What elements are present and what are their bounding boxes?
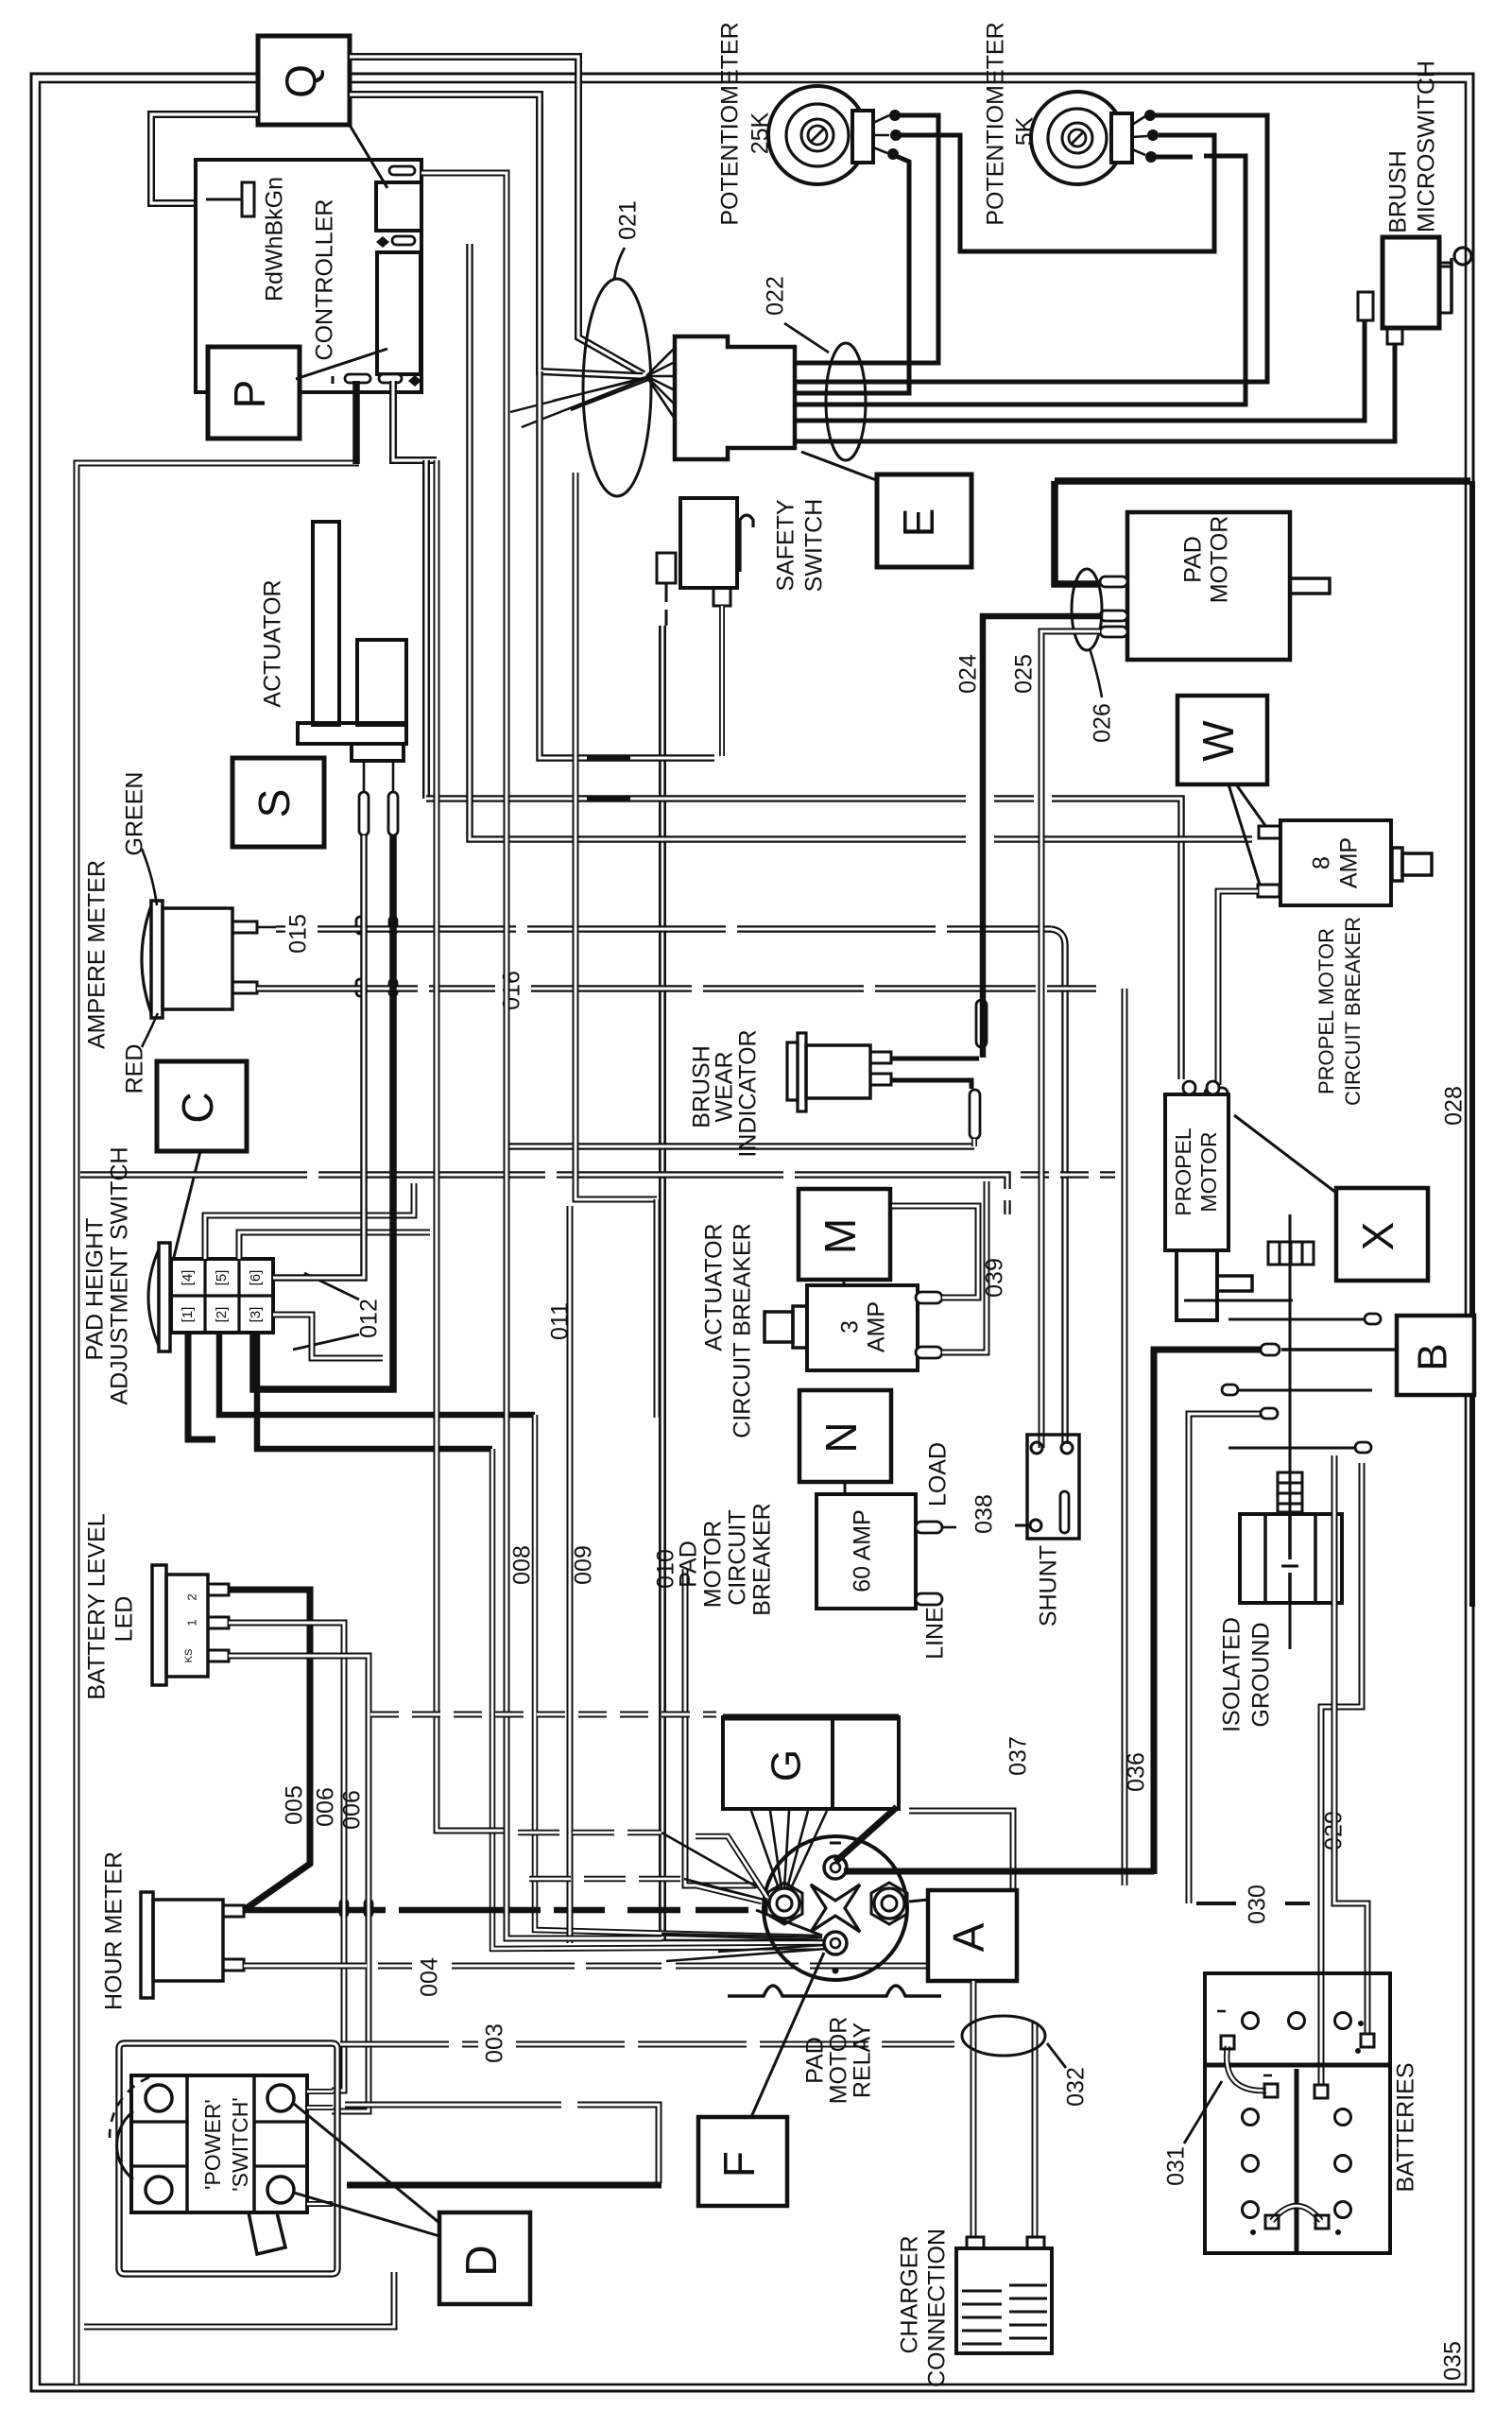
svg-text:C: C: [173, 1092, 222, 1123]
svg-text:MICROSWITCH: MICROSWITCH: [1414, 60, 1440, 232]
battery polarity marks: [1217, 2011, 1334, 2230]
wire dashed bus 1938: [518, 1830, 661, 1836]
svg-text:005: 005: [282, 1785, 308, 1825]
svg-text:PROPEL: PROPEL: [1171, 1128, 1195, 1216]
wire 5K bottom terminal: [797, 156, 1246, 405]
harness ellipse 021: [583, 279, 651, 496]
shunt body: [1027, 1435, 1079, 1539]
wire thick top stud bus: [844, 1868, 1154, 1875]
svg-text:SAFETY: SAFETY: [773, 499, 799, 592]
svg-text:'SWITCH': 'SWITCH': [228, 2097, 252, 2192]
relay left stud: [766, 1883, 802, 1924]
svg-text:POTENTIOMETER: POTENTIOMETER: [983, 22, 1009, 225]
svg-text:D: D: [456, 2245, 506, 2276]
brush wear pin 2: [870, 1074, 891, 1085]
svg-text:ADJUSTMENT SWITCH: ADJUSTMENT SWITCH: [107, 1146, 133, 1404]
svg-text:B: B: [1410, 1343, 1456, 1370]
25K terminal dots: [890, 111, 901, 121]
svg-text:AMPERE METER: AMPERE METER: [84, 860, 111, 1049]
svg-text:CIRCUIT: CIRCUIT: [725, 1509, 751, 1605]
wire microswitch left terminal: [797, 320, 1365, 421]
relay X cross: [811, 1885, 860, 1932]
svg-text:006: 006: [313, 1787, 339, 1827]
wire branch to bus 845: [422, 460, 430, 799]
box P: [208, 347, 300, 439]
actuator lower tab: [352, 744, 404, 761]
wire 003 bus: [340, 2041, 954, 2048]
wire 8amp bottom: [1218, 891, 1258, 1085]
wire bus to pad area upper: [540, 371, 714, 758]
svg-text:[3]: [3]: [248, 1307, 264, 1323]
relay dot mark: [833, 1968, 838, 1973]
fan wires to relay bottom stud: [661, 1934, 826, 1961]
svg-text:N: N: [816, 1421, 866, 1453]
svg-text:012: 012: [356, 1299, 383, 1338]
microswitch side plate: [1439, 267, 1452, 313]
wire 029: [1321, 1463, 1362, 2085]
svg-text:PAD HEIGHT: PAD HEIGHT: [82, 1218, 109, 1361]
wire 004 bus: [244, 1963, 945, 1970]
60 amp breaker body: [816, 1494, 916, 1609]
wire 025: [1041, 631, 1100, 1448]
safety switch lever: [740, 515, 753, 572]
brush wear pin 1: [870, 1052, 891, 1063]
svg-text:SHUNT: SHUNT: [1036, 1545, 1062, 1627]
svg-text:[6]: [6]: [248, 1270, 264, 1286]
switch loop wire c: [273, 1315, 383, 1358]
svg-text:008: 008: [509, 1545, 536, 1585]
harness ellipse 022: [826, 343, 866, 460]
switch loop wire b: [239, 1232, 430, 1259]
svg-text:031: 031: [1163, 2146, 1190, 2186]
box S: [232, 758, 324, 847]
crossing pills 006: [340, 1900, 348, 1917]
svg-text:MOTOR: MOTOR: [1196, 1131, 1221, 1212]
hour meter body: [141, 1892, 153, 1998]
wire thick G to top stud: [835, 1807, 897, 1862]
box M: [799, 1189, 890, 1280]
svg-text:026: 026: [1090, 703, 1116, 743]
harness ellipse 032: [962, 2016, 1045, 2056]
svg-text:011: 011: [547, 1302, 574, 1340]
svg-text:CONNECTION: CONNECTION: [924, 2229, 951, 2387]
microswitch roller lever: [1450, 258, 1453, 313]
wire brush wear bottom: [891, 1080, 971, 1089]
wire vertical 009: [576, 473, 657, 1199]
svg-text:015: 015: [285, 914, 312, 954]
svg-text:8: 8: [1309, 856, 1335, 869]
isolated ground symbol: [1289, 1437, 1292, 1649]
wire safety switch bottom: [719, 606, 725, 756]
switch wire c1 thick: [188, 1333, 215, 1439]
60 amp LINE terminal: [916, 1593, 942, 1605]
wire bus 1243 dashes right: [1021, 1171, 1115, 1179]
wire A to charger: [971, 1981, 977, 2238]
box W: [1177, 696, 1267, 784]
microswitch bottom terminal: [1387, 328, 1402, 344]
axle stud 4 wire: [1189, 1414, 1261, 1903]
callout X to propel motor: [1234, 1115, 1336, 1193]
actuator body rod: [313, 522, 339, 725]
power switch arc: [117, 2111, 133, 2179]
svg-text:RdWhBkGn: RdWhBkGn: [262, 177, 288, 301]
charger connection box: [956, 2248, 1052, 2353]
pad motor harness thick enclosure: [1055, 477, 1470, 485]
wire 036 thick: [1154, 1350, 1264, 1874]
svg-text:AMP: AMP: [864, 1301, 890, 1352]
svg-text:POTENTIOMETER: POTENTIOMETER: [717, 22, 744, 225]
hour meter pin 2: [223, 1959, 244, 1971]
wire charger second: [1032, 2023, 1039, 2238]
svg-text:CHARGER: CHARGER: [897, 2235, 923, 2353]
wire battery right: [1334, 1455, 1367, 2034]
power switch dashed arc: [110, 2077, 149, 2138]
wire 5K top terminal: [797, 115, 1267, 382]
actuator body cylinder: [357, 640, 406, 725]
wire dashed bus 1988: [529, 1876, 684, 1883]
callout A to right stud: [909, 1900, 928, 1902]
battery terminal square a: [1314, 2085, 1328, 2098]
svg-text:G: G: [764, 1749, 810, 1782]
wire to pad motor terminal: [1055, 481, 1100, 584]
pin pill 2: [392, 236, 415, 245]
svg-text:RELAY: RELAY: [850, 2023, 876, 2098]
battery caps: [1243, 2013, 1259, 2029]
axle stud 5: [1228, 1447, 1361, 1450]
actuator lead 2: [392, 761, 395, 792]
wire vertical 010b: [685, 1569, 756, 1885]
ampere meter pin 2: [232, 982, 257, 993]
microswitch left terminal: [1358, 292, 1373, 320]
8 amp breaker body: [1280, 820, 1391, 905]
box A: [928, 1890, 1017, 1981]
actuator crossbar: [298, 723, 406, 744]
svg-text:039: 039: [982, 1258, 1008, 1298]
svg-text:GROUND: GROUND: [1248, 1622, 1275, 1727]
3 amp button: [765, 1312, 793, 1342]
wire brush wear top: [891, 1057, 979, 1061]
axle stud 1: [1184, 1300, 1293, 1302]
svg-text:022: 022: [763, 276, 789, 316]
box F: [698, 2117, 787, 2206]
svg-text:028: 028: [1441, 1086, 1468, 1126]
propel motor pins: [1183, 1081, 1195, 1094]
svg-text:60 AMP: 60 AMP: [850, 1509, 876, 1592]
svg-text:CIRCUIT BREAKER: CIRCUIT BREAKER: [1341, 917, 1365, 1106]
wire bus to propel breaker: [470, 244, 1252, 839]
wire fan into connector: [646, 348, 675, 419]
power switch stubs: [307, 2089, 333, 2094]
svg-text:ACTUATOR: ACTUATOR: [260, 579, 286, 707]
wire 014 thick: [253, 835, 393, 1389]
wire bus 845: [426, 799, 1181, 1079]
wire 006 a: [229, 1623, 344, 2091]
batteries box: [1205, 1973, 1390, 2253]
potentiometer 25K: [768, 86, 867, 184]
svg-text:PAD: PAD: [802, 2037, 829, 2084]
svg-text:'POWER': 'POWER': [200, 2099, 225, 2190]
wire 016 bus: [257, 985, 1096, 992]
svg-text:WEAR: WEAR: [712, 1052, 738, 1123]
svg-text:[2]: [2]: [214, 1307, 230, 1323]
callout E to connector: [801, 452, 879, 481]
polarity diamond 2: [408, 375, 421, 387]
svg-text:[4]: [4]: [180, 1270, 196, 1286]
box B: [1397, 1316, 1474, 1395]
svg-text:035: 035: [1440, 2341, 1467, 2381]
callout 012 b: [293, 1334, 359, 1350]
LED pin 1: [208, 1584, 229, 1595]
svg-text:ISOLATED: ISOLATED: [1219, 1617, 1246, 1732]
switch wire c2 thick: [219, 1333, 535, 1415]
svg-text:004: 004: [417, 1957, 443, 1997]
wire thick 2312: [347, 2182, 661, 2189]
svg-text:032: 032: [1063, 2067, 1090, 2107]
wire safety switch left: [665, 583, 668, 626]
svg-text:GREEN: GREEN: [122, 772, 148, 856]
box N: [799, 1390, 891, 1482]
relay right stud: [871, 1883, 907, 1924]
wire 013 upper: [273, 835, 364, 1278]
svg-text:X: X: [1353, 1222, 1402, 1251]
wire 25K top terminal: [797, 115, 938, 363]
switch wire c3 thick: [257, 1333, 492, 1449]
svg-text:A: A: [944, 1922, 993, 1952]
svg-text:AMP: AMP: [1336, 837, 1363, 888]
battery level LED body: [152, 1565, 166, 1685]
svg-text:021: 021: [615, 200, 642, 240]
callout F to bottom stud: [751, 1953, 824, 2117]
battery jumper lower: [1272, 2206, 1321, 2221]
box X: [1336, 1188, 1428, 1281]
relay mount bracket: [728, 1986, 941, 1996]
relay mount G block: [723, 1717, 899, 1809]
svg-text:HOUR METER: HOUR METER: [101, 1851, 128, 2010]
svg-text:INDICATOR: INDICATOR: [735, 1029, 762, 1157]
callout W b: [1228, 784, 1260, 885]
polarity minus marks: [333, 168, 338, 384]
8 amp button: [1392, 848, 1402, 881]
wire M to 3amp: [843, 1280, 846, 1285]
wire B box link: [1281, 1348, 1397, 1351]
bolt hatch upper: [1268, 1242, 1314, 1265]
3 amp breaker body: [807, 1285, 918, 1370]
callout 032: [1047, 2043, 1066, 2068]
pin pill 4: [379, 374, 402, 383]
pin pill 1: [389, 166, 415, 175]
8 amp terminals: [1259, 826, 1280, 838]
power switch lever: [249, 2212, 285, 2254]
svg-text:Q: Q: [276, 64, 325, 98]
svg-text:003: 003: [482, 2023, 508, 2063]
callout D a: [294, 2104, 439, 2223]
axle line: [1289, 1214, 1292, 1474]
callout P to controller: [296, 349, 387, 379]
box D: [439, 2212, 530, 2304]
svg-text:MOTOR: MOTOR: [700, 1521, 727, 1609]
svg-text:ACTUATOR: ACTUATOR: [701, 1223, 728, 1351]
svg-text:016: 016: [499, 971, 525, 1010]
svg-text:S: S: [249, 789, 299, 818]
safety switch left terminal: [657, 553, 676, 583]
svg-text:006: 006: [339, 1790, 366, 1830]
wire dashed bus 1814: [370, 1712, 716, 1718]
battery terminal square b: [1361, 2034, 1374, 2047]
svg-text:BRUSH: BRUSH: [1385, 150, 1412, 233]
wire 006 b: [229, 1656, 369, 2111]
wire 25K bottom terminal: [797, 156, 909, 393]
svg-text:1: 1: [184, 1619, 198, 1626]
svg-text:M: M: [816, 1218, 865, 1254]
callout D b: [294, 2193, 439, 2236]
svg-text:037: 037: [1005, 1736, 1032, 1776]
svg-text:009: 009: [571, 1545, 597, 1585]
relay bottom stud: [824, 1932, 847, 1954]
safety switch body: [680, 498, 737, 588]
callout 012 a: [304, 1273, 359, 1300]
controller connector block lower: [377, 252, 421, 374]
safety switch bottom terminal: [713, 588, 730, 606]
svg-text:LINE: LINE: [922, 1607, 949, 1660]
brush microswitch body: [1383, 237, 1439, 328]
wire 015 bus: [276, 925, 1051, 933]
svg-text:W: W: [1194, 720, 1243, 762]
callout 022: [784, 323, 829, 353]
connector shell E: [675, 336, 795, 459]
pad motor box: [1127, 512, 1290, 660]
svg-text:MOTOR: MOTOR: [826, 2017, 852, 2105]
wire feeders into fan: [510, 377, 648, 427]
wire Q right lower: [350, 95, 643, 376]
power switch enclosure: [119, 2043, 337, 2274]
svg-text:PAD: PAD: [1180, 536, 1207, 583]
battery jumper 031: [1227, 2046, 1266, 2091]
wire 039 loop: [892, 1206, 978, 1298]
callout red: [142, 1013, 158, 1047]
pad motor terminal pills: [1100, 577, 1127, 587]
callout green: [142, 849, 157, 905]
actuator lead 1: [363, 761, 366, 792]
ampere meter pin 1: [232, 921, 257, 933]
harness ellipse 026: [1072, 569, 1102, 650]
relay top stud: [824, 1856, 847, 1879]
wire 037 pair: [909, 1811, 1013, 1890]
wire 036 pair: [1122, 989, 1128, 1885]
wire bus 1243: [80, 1175, 1007, 1214]
connector box Q: [258, 36, 350, 125]
svg-text:SWITCH: SWITCH: [801, 499, 828, 593]
3 amp terminal pills: [916, 1292, 942, 1303]
pin pill 3: [345, 374, 370, 383]
svg-text:3: 3: [837, 1320, 864, 1334]
box E: [877, 474, 971, 567]
callout Q to connector: [351, 127, 387, 188]
svg-text:MOTOR: MOTOR: [1207, 516, 1233, 604]
wire N to 60amp: [844, 1482, 847, 1494]
svg-text:F: F: [714, 2151, 764, 2178]
svg-text:024: 024: [955, 654, 982, 694]
propel motor box: [1165, 1094, 1228, 1250]
wire controller minus thick run: [352, 381, 360, 464]
thick splice 845: [587, 796, 630, 802]
callout 026: [1090, 648, 1102, 697]
box C: [157, 1061, 247, 1151]
wire 024: [983, 616, 1100, 1058]
svg-text:CONTROLLER: CONTROLLER: [312, 199, 338, 361]
LED pin 3: [208, 1650, 229, 1661]
svg-text:CIRCUIT BREAKER: CIRCUIT BREAKER: [730, 1223, 756, 1437]
svg-text:2: 2: [184, 1593, 198, 1600]
axle stud 3: [1228, 1389, 1372, 1392]
svg-text:P: P: [225, 380, 274, 409]
brush wear indicator body: [787, 1042, 798, 1100]
pad height switch block: [171, 1259, 273, 1333]
svg-text:BATTERIES: BATTERIES: [1393, 2062, 1419, 2192]
pad height switch flange: [159, 1243, 170, 1351]
wire controller plus double run: [393, 381, 437, 460]
svg-text:RED: RED: [122, 1044, 148, 1094]
wire Q right upper: [350, 57, 644, 374]
capacitor end cap: [242, 182, 254, 216]
inner enclosure left wall: [77, 463, 359, 2384]
svg-text:[1]: [1]: [180, 1307, 196, 1323]
wire bus 2227: [345, 2105, 659, 2183]
wire 030 dashed: [1196, 1902, 1310, 1905]
potentiometer 5K: [1031, 92, 1124, 184]
svg-text:KS: KS: [183, 1649, 195, 1663]
hour meter pin 1: [223, 1905, 244, 1917]
wire 005: [229, 1590, 310, 1910]
wire vertical left pair: [437, 460, 505, 1831]
wire microswitch bottom terminal: [797, 344, 1395, 441]
power switch contacts: [146, 2085, 172, 2111]
wire bus 1213: [504, 1143, 974, 1150]
polarity diamond 1: [376, 236, 389, 248]
svg-text:BATTERY LEVEL: BATTERY LEVEL: [84, 1513, 111, 1699]
thick splice 805: [587, 755, 630, 762]
60 amp LOAD terminal: [916, 1522, 942, 1533]
controller connector block upper: [376, 182, 421, 231]
wire vertical 010: [654, 1199, 661, 1418]
svg-text:038: 038: [971, 1494, 998, 1534]
power switch block: [131, 2075, 307, 2212]
svg-text:BREAKER: BREAKER: [749, 1503, 776, 1615]
crossing pills: [356, 917, 364, 934]
callout W a: [1236, 784, 1266, 827]
charger hatch lines: [962, 2291, 1002, 2344]
svg-text:LED: LED: [112, 1596, 138, 1643]
wire 25K wiper to 5K wiper: [901, 135, 1214, 251]
callout C to switch: [172, 1151, 200, 1265]
svg-text:PROPEL MOTOR: PROPEL MOTOR: [1314, 928, 1338, 1094]
wire vertical pill1: [421, 173, 661, 1938]
wire 005 bus thick dashed: [244, 1907, 605, 1914]
svg-text:[5]: [5]: [214, 1270, 230, 1286]
pad motor shaft: [1290, 578, 1330, 594]
relay minus mark: [830, 1842, 841, 1845]
wire left feeds to stud: [696, 1836, 767, 1898]
LED pin 2: [208, 1617, 229, 1628]
propel gearbox: [1177, 1250, 1217, 1320]
switch loop wire a: [205, 1183, 414, 1259]
svg-text:E: E: [894, 508, 943, 538]
wire Q to controller left: [151, 114, 258, 203]
pad motor relay body: [764, 1836, 907, 1980]
controller box: [196, 160, 421, 392]
axle stud 2: [1228, 1318, 1368, 1321]
svg-text:025: 025: [1011, 654, 1038, 694]
wire G fan to left stud: [751, 1811, 827, 1890]
